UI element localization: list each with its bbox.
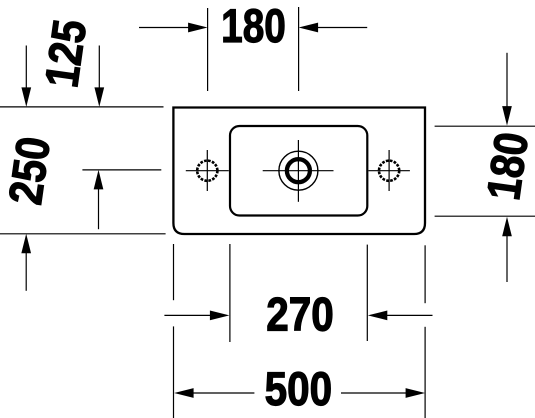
dim 250 left: down arrowhead bbox=[21, 87, 31, 107]
label 180 right bbox=[477, 129, 535, 203]
dim 125 left: down arrowhead bbox=[94, 87, 104, 107]
dim 180 right: bottom extension line bbox=[435, 215, 535, 217]
dim 500: left arrowhead bbox=[174, 388, 194, 398]
left tap hole crosshair vertical bbox=[206, 150, 208, 191]
left tap hole crosshair horizontal bbox=[186, 170, 229, 172]
dim 270: left arrowhead bbox=[210, 311, 230, 321]
dim 180 top: left arrowhead bbox=[188, 23, 208, 33]
dim 500: left extension line lower segment bbox=[173, 326, 175, 418]
basin inner bowl rectangle bbox=[230, 126, 367, 216]
svg-text:180: 180 bbox=[477, 129, 535, 203]
label 180 top bbox=[221, 1, 286, 53]
dim 180 top: right arrowhead bbox=[299, 23, 319, 33]
dim 270: left arrow shaft bbox=[164, 314, 212, 316]
label 270 bottom bbox=[266, 289, 334, 342]
left tap hole dashed circle bbox=[197, 161, 217, 181]
dim 180 right: upper arrowhead bbox=[502, 106, 512, 126]
svg-text:125: 125 bbox=[36, 17, 97, 91]
dim 500: right extension line upper segment bbox=[424, 245, 426, 303]
dim 125 left: down arrow shaft bbox=[98, 46, 100, 90]
right tap hole crosshair horizontal bbox=[369, 170, 410, 172]
dim 180 top: right arrow shaft bbox=[316, 27, 367, 29]
tap centerline extension left bbox=[82, 169, 161, 171]
right tap hole dashed circle bbox=[379, 161, 399, 181]
dim 500: left arrow shaft bbox=[192, 392, 254, 394]
bottom edge extension line left bbox=[0, 233, 166, 235]
svg-text:500: 500 bbox=[265, 363, 333, 416]
dim 500: right arrow shaft bbox=[341, 392, 407, 394]
drain outer circle bbox=[279, 151, 318, 190]
svg-text:180: 180 bbox=[221, 1, 286, 53]
drain crosshair vertical bbox=[297, 140, 299, 202]
basin outer outline bbox=[173, 108, 425, 235]
dim 250 left: up arrowhead bbox=[21, 234, 31, 254]
label 250 left bbox=[0, 134, 61, 208]
dim 180 top: left arrow shaft bbox=[139, 27, 190, 29]
dim 500: right extension line lower segment bbox=[424, 327, 426, 418]
dim 125 left: up arrowhead bbox=[94, 170, 104, 190]
svg-text:250: 250 bbox=[0, 134, 61, 208]
dim 250 left: down arrow shaft bbox=[25, 46, 27, 90]
dim 180 right: lower arrow shaft bbox=[506, 234, 508, 282]
dim 180 top: right extension line bbox=[298, 7, 300, 91]
drain crosshair horizontal bbox=[263, 170, 334, 172]
right tap hole crosshair vertical bbox=[388, 150, 390, 191]
dim 250 left: up arrow shaft bbox=[25, 251, 27, 291]
dim 500: left extension line upper segment bbox=[173, 244, 175, 300]
dim 500: right arrowhead bbox=[406, 388, 426, 398]
dim 270: right extension line bbox=[366, 245, 368, 341]
drain inner circle bbox=[287, 159, 310, 182]
dim 180 right: top extension line bbox=[435, 125, 535, 127]
dim 180 top: left extension line bbox=[207, 8, 209, 91]
dim 180 right: upper arrow shaft bbox=[506, 53, 508, 108]
dim 180 right: lower arrowhead bbox=[502, 217, 512, 237]
dim 270: right arrow shaft bbox=[385, 314, 433, 316]
dim 270: left extension line bbox=[229, 244, 231, 342]
top edge extension line left bbox=[0, 106, 164, 108]
dim 270: right arrowhead bbox=[368, 311, 388, 321]
dim 125 left: up arrow shaft bbox=[98, 187, 100, 229]
svg-text:270: 270 bbox=[266, 289, 334, 342]
label 125 left bbox=[36, 17, 97, 91]
label 500 bottom bbox=[265, 363, 333, 416]
